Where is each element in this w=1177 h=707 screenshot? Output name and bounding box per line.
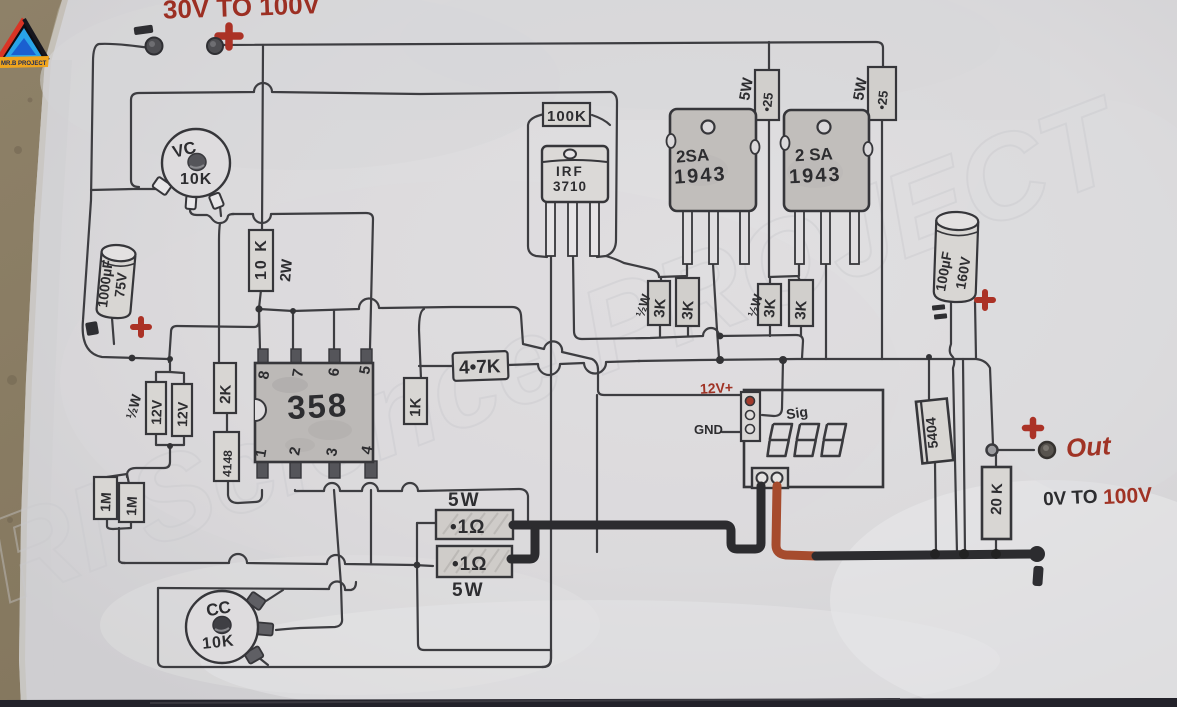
- svg-text:5W: 5W: [448, 490, 481, 511]
- svg-text:12V+: 12V+: [700, 379, 734, 397]
- svg-text:•25: •25: [874, 90, 891, 110]
- svg-text:GND: GND: [694, 422, 723, 437]
- svg-text:IRF: IRF: [556, 164, 584, 179]
- svg-text:•1Ω: •1Ω: [450, 517, 485, 538]
- svg-text:4148: 4148: [220, 450, 235, 477]
- svg-text:1943: 1943: [673, 163, 727, 189]
- svg-text:3K: 3K: [679, 300, 697, 320]
- svg-text:1M: 1M: [97, 492, 114, 512]
- svg-text:10 K: 10 K: [253, 238, 270, 280]
- svg-text:Sig: Sig: [785, 403, 809, 422]
- svg-text:1M: 1M: [123, 496, 140, 516]
- svg-text:3K: 3K: [651, 298, 669, 318]
- svg-text:5W: 5W: [452, 580, 485, 601]
- svg-text:2 SA: 2 SA: [795, 144, 834, 165]
- svg-text:Out: Out: [1065, 430, 1113, 463]
- svg-text:12V: 12V: [174, 401, 191, 427]
- svg-text:358: 358: [286, 386, 349, 426]
- svg-text:4•7K: 4•7K: [459, 356, 501, 378]
- svg-text:1943: 1943: [789, 164, 843, 189]
- svg-text:100V: 100V: [1103, 484, 1153, 510]
- svg-text:100K: 100K: [547, 108, 587, 125]
- svg-text:12V: 12V: [148, 399, 165, 425]
- svg-text:2SA: 2SA: [675, 145, 709, 166]
- svg-text:•25: •25: [759, 92, 776, 112]
- svg-text:1K: 1K: [407, 397, 425, 417]
- svg-text:3K: 3K: [792, 300, 810, 320]
- svg-text:2K: 2K: [217, 384, 235, 404]
- svg-text:•1Ω: •1Ω: [452, 554, 487, 575]
- svg-text:10K: 10K: [201, 633, 235, 653]
- svg-text:20 K: 20 K: [988, 483, 1006, 515]
- svg-text:MR.B PROJECT: MR.B PROJECT: [1, 61, 47, 67]
- svg-text:10K: 10K: [180, 171, 212, 188]
- svg-text:2W: 2W: [277, 258, 296, 283]
- svg-text:3710: 3710: [553, 179, 587, 194]
- svg-text:0V TO: 0V TO: [1043, 487, 1099, 511]
- svg-text:75V: 75V: [111, 271, 130, 298]
- svg-text:5404: 5404: [922, 416, 941, 449]
